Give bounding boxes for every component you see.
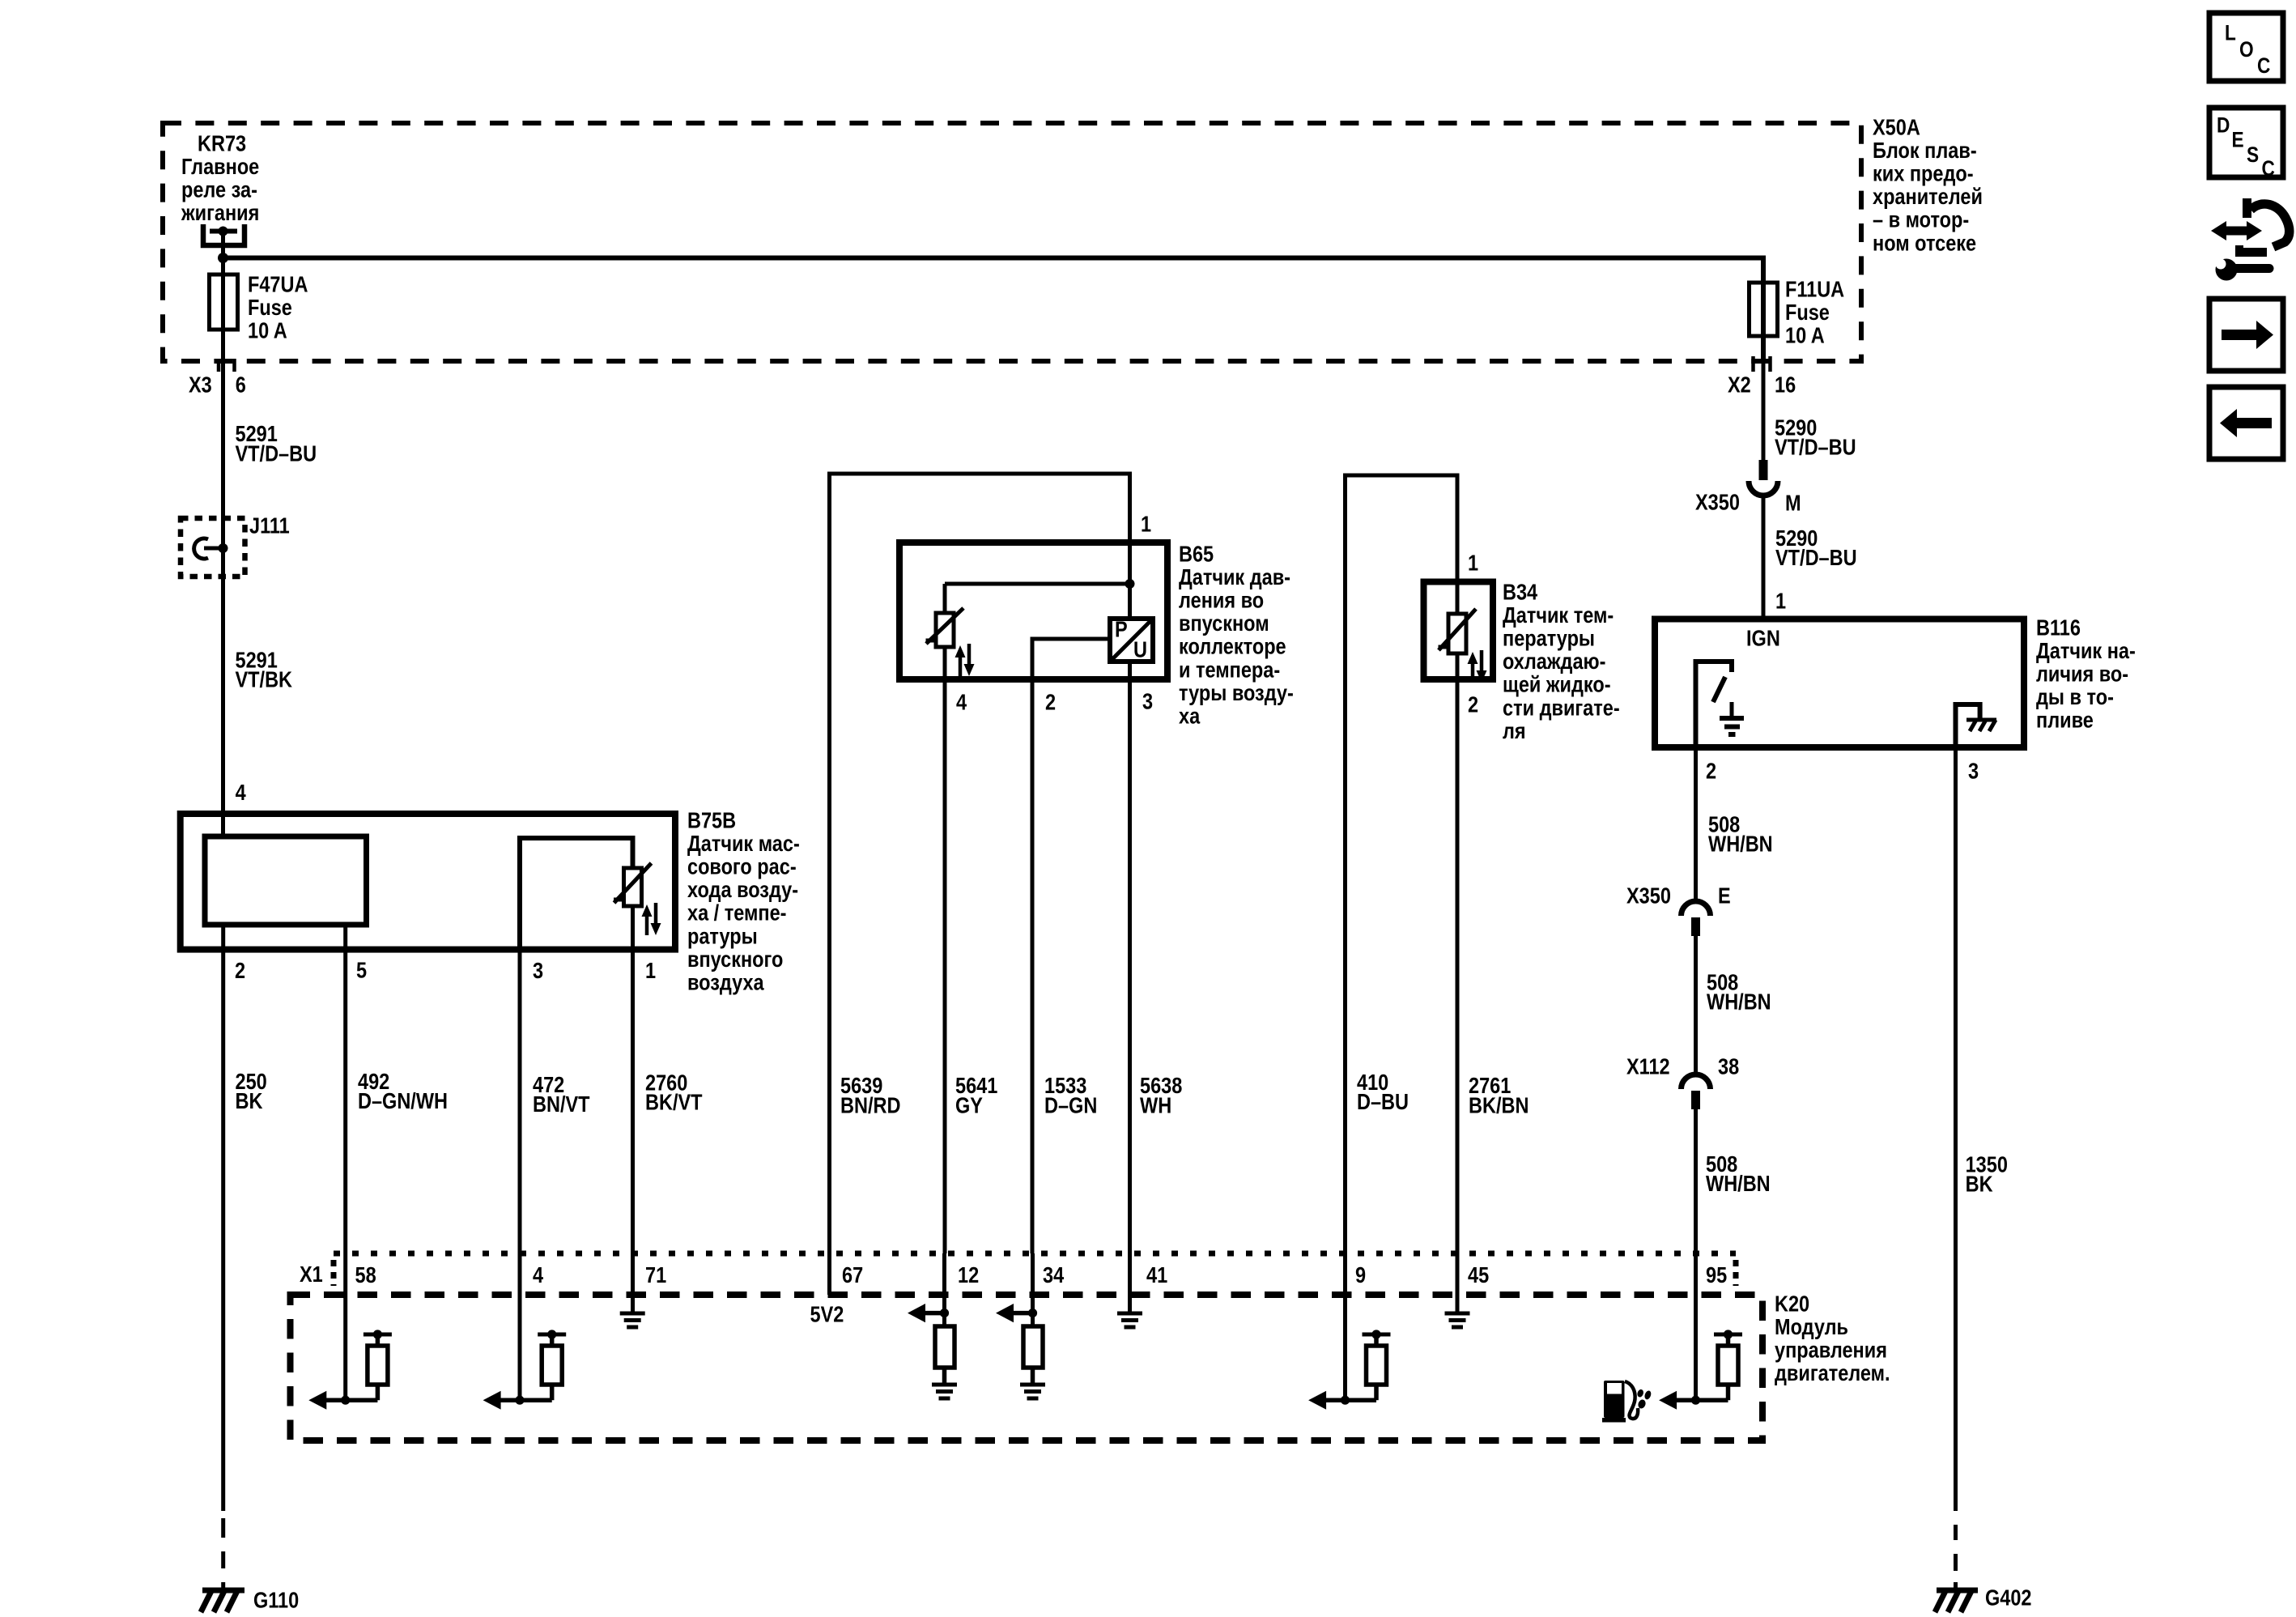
icon LOC: [2209, 13, 2283, 81]
svg-text:Датчик дав-: Датчик дав-: [1179, 565, 1290, 589]
K20 internal pin 9 signal resistor: [1343, 1253, 1347, 1400]
svg-text:B75B: B75B: [687, 808, 736, 832]
svg-text:BK: BK: [1966, 1172, 1993, 1197]
svg-text:Модуль: Модуль: [1775, 1315, 1848, 1339]
svg-text:1: 1: [645, 959, 656, 983]
K20 internal pin 71 ground: [631, 1253, 635, 1312]
svg-text:K20: K20: [1775, 1291, 1809, 1316]
wire 2760 BK/VT: [631, 949, 635, 1253]
module K20 dashed box: [291, 1295, 1763, 1440]
sensor B34 box: [1424, 582, 1494, 680]
svg-text:VT/BK: VT/BK: [236, 668, 293, 692]
module K20 connector X1 dotted line: [334, 1251, 1736, 1257]
sensor B75B box: [181, 814, 675, 950]
svg-text:личия во-: личия во-: [2036, 662, 2128, 687]
svg-text:34: 34: [1043, 1263, 1065, 1287]
wire 1350 BK: [1954, 747, 1958, 1511]
K20 internal pin 34 pull-up to ground: [1031, 1253, 1035, 1326]
svg-text:1: 1: [1775, 589, 1786, 613]
svg-text:– в мотор-: – в мотор-: [1873, 208, 1969, 232]
wire 5641 GY: [943, 679, 947, 1253]
svg-text:X3: X3: [189, 372, 212, 397]
svg-text:X1: X1: [300, 1262, 323, 1287]
svg-text:12: 12: [958, 1263, 979, 1287]
svg-text:управления: управления: [1775, 1338, 1887, 1363]
K20 internal pin 12 pull-up to ground: [942, 1253, 946, 1326]
svg-text:Датчик мас-: Датчик мас-: [687, 832, 800, 856]
svg-text:пературы: пературы: [1503, 627, 1595, 651]
wire 508 WH/BN segment 1: [1694, 747, 1698, 901]
K20 internal pin 41 ground: [1128, 1253, 1132, 1312]
wire 2761 BK/BN: [1456, 679, 1460, 1253]
K20 internal pin 4 signal resistor: [518, 1253, 522, 1400]
svg-text:C: C: [2257, 53, 2270, 78]
svg-text:O: O: [2239, 37, 2254, 62]
svg-text:3: 3: [533, 959, 543, 983]
svg-text:X50A: X50A: [1873, 115, 1920, 139]
wire 410 D-BU feed loop to B34 pin 1: [1346, 475, 1458, 1253]
icon arrow back: [2209, 387, 2283, 459]
svg-text:WH/BN: WH/BN: [1706, 1172, 1771, 1196]
splice J111: [181, 518, 245, 577]
svg-text:E: E: [1718, 883, 1731, 908]
fuel pump icon in K20: [1604, 1381, 1625, 1418]
svg-text:D–GN: D–GN: [1044, 1094, 1097, 1118]
svg-text:45: 45: [1468, 1263, 1489, 1287]
svg-text:BN/VT: BN/VT: [533, 1092, 590, 1117]
P/U transducer symbol in B65: [1110, 619, 1153, 662]
svg-text:охлаждаю-: охлаждаю-: [1503, 649, 1605, 674]
svg-text:B116: B116: [2036, 615, 2081, 640]
svg-text:D: D: [2217, 113, 2230, 137]
svg-text:M: M: [1785, 491, 1801, 515]
wire 5291 VT/D-BU: [221, 361, 225, 519]
svg-text:1: 1: [1468, 551, 1478, 575]
svg-text:67: 67: [842, 1263, 863, 1287]
wire 5291 VT/BK: [221, 577, 225, 836]
svg-text:E: E: [2232, 127, 2244, 151]
K20 internal 5V2 reference label: [827, 1253, 831, 1295]
svg-text:BK/VT: BK/VT: [645, 1091, 703, 1115]
svg-text:X2: X2: [1728, 372, 1751, 397]
sensor B116 box: [1655, 619, 2024, 748]
svg-text:Fuse: Fuse: [248, 296, 292, 320]
thermistor inside B34: [1448, 614, 1466, 653]
svg-text:хранителей: хранителей: [1873, 185, 1983, 209]
svg-text:VT/D–BU: VT/D–BU: [1775, 436, 1856, 460]
svg-text:6: 6: [236, 372, 246, 397]
svg-text:5V2: 5V2: [810, 1302, 844, 1326]
svg-text:X350: X350: [1626, 883, 1671, 908]
wire 492 D-GN/WH: [343, 925, 347, 1253]
svg-text:2: 2: [1045, 690, 1056, 714]
svg-text:впускном: впускном: [1179, 611, 1269, 636]
svg-text:WH: WH: [1140, 1094, 1171, 1118]
svg-text:F11UA: F11UA: [1785, 277, 1844, 301]
svg-text:2: 2: [1468, 692, 1478, 717]
svg-text:Датчик на-: Датчик на-: [2036, 639, 2136, 663]
ground symbol inside B116 left: [1730, 702, 1734, 717]
connector X112 cavity 38: [1682, 1074, 1711, 1089]
svg-text:D–BU: D–BU: [1357, 1090, 1409, 1114]
thermistor inside B65: [936, 613, 954, 647]
svg-text:VT/D–BU: VT/D–BU: [236, 442, 317, 466]
ground G402: [1937, 1588, 1978, 1594]
svg-text:3: 3: [1142, 689, 1153, 713]
svg-text:и темпера-: и темпера-: [1179, 657, 1280, 682]
wire 250 dashed tail: [221, 1518, 225, 1538]
K20 internal pin 45 ground: [1456, 1253, 1460, 1312]
wire 508 WH/BN segment 2: [1694, 936, 1698, 1074]
svg-text:Главное: Главное: [181, 155, 259, 179]
wire B65 pin1 internal: [1128, 543, 1132, 679]
svg-text:X350: X350: [1695, 490, 1740, 514]
svg-text:S: S: [2247, 143, 2259, 167]
svg-text:Fuse: Fuse: [1785, 300, 1830, 325]
ground G110: [202, 1588, 244, 1594]
svg-text:впускного: впускного: [687, 947, 783, 972]
svg-text:2: 2: [235, 959, 245, 983]
svg-text:ления во: ления во: [1179, 589, 1264, 613]
svg-text:B34: B34: [1503, 580, 1538, 604]
svg-text:16: 16: [1775, 372, 1796, 397]
svg-text:U: U: [1133, 637, 1147, 662]
svg-text:3: 3: [1968, 759, 1979, 783]
svg-text:ха / темпе-: ха / темпе-: [687, 901, 787, 926]
K20 internal pin 58 signal resistor: [343, 1253, 347, 1400]
switch symbol inside B116: [1696, 662, 1733, 747]
icon arrow forward: [2209, 299, 2283, 371]
svg-text:X112: X112: [1626, 1054, 1670, 1079]
svg-text:58: 58: [355, 1263, 376, 1287]
sensor B75B bridge wire pins 3-1: [520, 838, 633, 949]
fuse F11UA: [1750, 283, 1778, 336]
chassis ground inside B116 right pin 3: [1956, 704, 1980, 747]
svg-text:туры возду-: туры возду-: [1179, 681, 1294, 705]
wire main bus from KR73 to F11UA: [223, 258, 1764, 360]
icon DESC: [2209, 108, 2283, 177]
svg-text:4: 4: [956, 690, 967, 714]
svg-text:4: 4: [236, 781, 247, 805]
svg-text:4: 4: [533, 1263, 544, 1287]
node bus junction: [218, 253, 228, 263]
svg-text:VT/D–BU: VT/D–BU: [1775, 546, 1857, 570]
svg-text:2: 2: [1706, 759, 1716, 783]
wire B65 pin2 internal: [1032, 639, 1110, 679]
svg-text:ких предо-: ких предо-: [1873, 162, 1974, 186]
svg-text:38: 38: [1718, 1054, 1739, 1079]
svg-text:P: P: [1115, 617, 1128, 641]
svg-text:F47UA: F47UA: [248, 272, 308, 296]
sensor B65 box: [899, 543, 1167, 679]
svg-text:GY: GY: [955, 1094, 983, 1118]
svg-text:BK: BK: [236, 1089, 263, 1113]
wire 250 BK: [221, 925, 225, 1511]
fuse block X50A dashed boundary: [163, 123, 1861, 361]
svg-text:41: 41: [1146, 1263, 1167, 1287]
svg-text:C: C: [2262, 156, 2275, 181]
svg-text:Датчик тем-: Датчик тем-: [1503, 603, 1614, 628]
svg-text:коллекторе: коллекторе: [1179, 635, 1286, 659]
svg-text:L: L: [2225, 20, 2236, 45]
connector X2 pin 16 ticks: [1751, 356, 1755, 372]
svg-text:1: 1: [1141, 512, 1151, 536]
wire 5639 BN/RD feed loop to B65 pin 1: [830, 474, 1130, 1253]
svg-text:реле за-: реле за-: [181, 178, 257, 202]
relay KR73 contact symbol: [203, 224, 244, 245]
connector X3 pin 6 ticks: [217, 359, 221, 372]
wire 5290 VT/D-BU upper: [1762, 361, 1766, 460]
connector X350 cavity M: [1759, 460, 1768, 480]
svg-text:ном отсеке: ном отсеке: [1873, 231, 1976, 255]
svg-text:WH/BN: WH/BN: [1707, 990, 1771, 1015]
svg-text:воздуха: воздуха: [687, 971, 764, 995]
wire 472 BN/VT: [518, 949, 522, 1253]
svg-text:95: 95: [1706, 1263, 1727, 1287]
svg-text:жигания: жигания: [181, 201, 259, 225]
wire 5638 WH: [1128, 679, 1132, 1253]
connector X350 cavity E: [1682, 901, 1711, 916]
svg-text:двигателем.: двигателем.: [1775, 1361, 1890, 1385]
K20 internal pin 95 signal resistor: [1694, 1253, 1698, 1400]
svg-text:D–GN/WH: D–GN/WH: [358, 1089, 448, 1113]
svg-text:10 A: 10 A: [1785, 324, 1825, 348]
svg-text:ха: ха: [1179, 704, 1201, 729]
svg-text:KR73: KR73: [198, 131, 246, 155]
svg-text:сового рас-: сового рас-: [687, 855, 797, 879]
svg-text:ля: ля: [1503, 719, 1526, 743]
svg-text:хода возду-: хода возду-: [687, 878, 798, 902]
svg-text:G110: G110: [253, 1588, 299, 1612]
svg-text:B65: B65: [1179, 542, 1214, 566]
wire 1533 D-GN: [1031, 679, 1035, 1253]
svg-text:J111: J111: [249, 513, 290, 538]
svg-text:Блок плав-: Блок плав-: [1873, 138, 1977, 163]
svg-text:BK/BN: BK/BN: [1469, 1094, 1529, 1118]
thermistor inside B75B: [624, 868, 642, 906]
wire 5290 VT/D-BU lower: [1762, 496, 1766, 619]
svg-text:щей жидко-: щей жидко-: [1503, 673, 1611, 697]
svg-text:IGN: IGN: [1746, 626, 1780, 650]
svg-text:сти двигате-: сти двигате-: [1503, 696, 1620, 720]
svg-text:10 A: 10 A: [248, 319, 287, 343]
svg-text:BN/RD: BN/RD: [840, 1094, 900, 1118]
svg-text:пливе: пливе: [2036, 709, 2094, 733]
fuse F47UA: [221, 248, 225, 359]
svg-text:5: 5: [356, 958, 367, 982]
icon repair info wrench: [2223, 227, 2250, 236]
wire 1350 dashed tail: [1954, 1525, 1958, 1540]
svg-text:WH/BN: WH/BN: [1708, 832, 1773, 857]
svg-text:G402: G402: [1985, 1585, 2032, 1610]
svg-text:71: 71: [645, 1263, 666, 1287]
wire 508 WH/BN segment 3: [1694, 1109, 1698, 1253]
sensor B75B inner element: [205, 836, 367, 925]
svg-text:9: 9: [1355, 1263, 1366, 1287]
svg-text:ратуры: ратуры: [687, 924, 758, 948]
svg-text:ды в то-: ды в то-: [2036, 685, 2114, 709]
